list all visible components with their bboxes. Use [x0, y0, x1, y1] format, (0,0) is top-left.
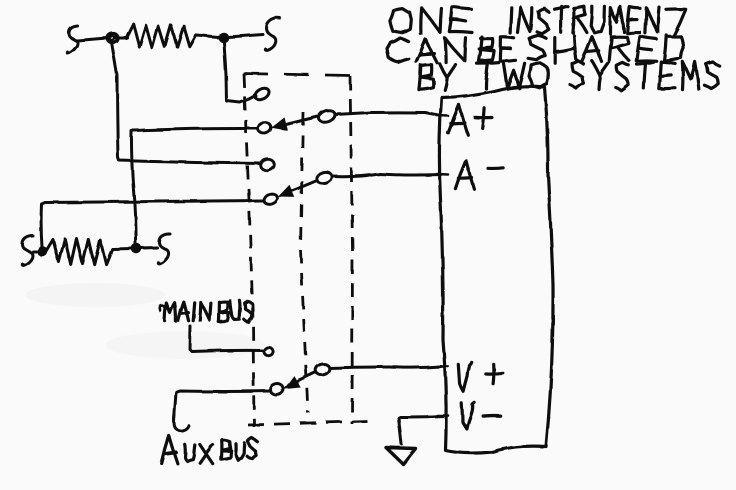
AUX BUS hook: [174, 414, 188, 431]
switch SW2 lever-end contact: [316, 171, 334, 186]
dashed divider (middle vertical): [301, 112, 309, 413]
wire node D to S4: [141, 246, 157, 250]
switch SW3 lever: [298, 372, 316, 381]
paper smudge: [105, 331, 265, 359]
terminal S4: [158, 234, 170, 264]
switch SW3 lever-end contact: [314, 362, 330, 376]
wire node A down to switch SW2 upper throw: [112, 42, 261, 164]
pin label A+: [448, 105, 468, 135]
wire node A to R1: [115, 36, 127, 39]
wire SW1 pole left then down to node D: [131, 128, 257, 243]
switch SW1 pole contact: [257, 121, 272, 134]
label AUX BUS: [161, 435, 177, 463]
instrument box outline: [439, 86, 553, 453]
switch SW3 arrowhead: [285, 377, 300, 389]
node B (R1 right): [219, 33, 229, 43]
pin stub V-: [437, 414, 448, 417]
wire node B to S2: [228, 35, 263, 38]
switch SW1 lever-end contact: [317, 109, 336, 125]
terminal S2: [265, 18, 280, 51]
switch SW1 arrowhead: [273, 118, 288, 130]
wire node B down to switch SW1 upper throw: [224, 42, 256, 103]
wire SW2 pole left then down to node C: [41, 201, 262, 248]
wire MAIN BUS stub: [190, 326, 263, 352]
terminal S1: [67, 26, 77, 53]
annotation title line 3: "BY TWO SYSTEMS": [419, 61, 719, 91]
switch SW2 upper throw contact: [260, 158, 275, 171]
switch SW2 lever: [293, 181, 317, 191]
annotation title line 2: "CAN BE SHARED": [388, 35, 684, 63]
wire SW3 to pin V+: [330, 367, 442, 369]
paper smudge: [25, 283, 165, 307]
wire S1 to node A: [77, 38, 107, 41]
wire SW3 pole to AUX BUS: [174, 391, 271, 420]
switch SW3 pole contact: [269, 383, 284, 396]
node C (R2 left): [38, 247, 48, 257]
wire V- to ground: [399, 416, 444, 444]
pin label V+: [458, 362, 471, 391]
MAIN BUS contact: [264, 347, 273, 355]
label MAIN BUS: [160, 306, 166, 311]
wire SW2 to pin A-: [333, 174, 442, 177]
resistor R2: [46, 239, 112, 265]
node D (R2 right): [132, 244, 142, 254]
pin stub A-: [437, 173, 448, 176]
dashed enclosure left edge: [244, 74, 255, 428]
switch SW2 pole contact: [262, 192, 278, 206]
resistor R1: [126, 24, 196, 48]
dashed enclosure bottom edge: [248, 421, 367, 425]
pin stub A+: [437, 114, 448, 117]
node A (R1 left): [107, 33, 119, 44]
wire S3 to node C: [33, 250, 38, 253]
ground symbol: [386, 448, 416, 465]
pin stub V+: [437, 365, 448, 368]
wire SW1 to pin A+: [335, 112, 441, 115]
pin label V-: [462, 402, 474, 429]
annotation title line 1: "ONE INSTRUMENT": [390, 6, 686, 36]
switch SW1 upper throw contact: [252, 85, 270, 101]
wire R2 to node D: [113, 247, 131, 251]
pin label A-: [455, 160, 474, 188]
dashed enclosure right edge: [350, 76, 353, 424]
terminal S3: [22, 236, 33, 265]
wire R1 to node B: [197, 36, 218, 38]
dashed enclosure top edge: [243, 74, 350, 76]
switch SW1 lever: [286, 117, 318, 125]
switch SW2 arrowhead: [279, 186, 294, 197]
